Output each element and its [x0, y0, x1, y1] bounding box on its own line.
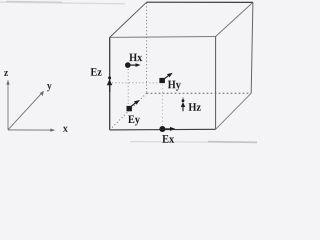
- cube front left edge: [109, 37, 111, 129]
- interior dotted vertical Hx-Ey: [127, 69, 129, 105]
- cube back right edge: [251, 2, 253, 93]
- cube edge bottom-right diagonal: [216, 93, 252, 129]
- field Hz marker: [181, 97, 185, 111]
- field Ez marker: [107, 76, 113, 92]
- axis z label: [4, 71, 8, 76]
- interior dotted horizontal Ez-Hy: [112, 82, 159, 84]
- cube edge top-left diagonal: [110, 2, 147, 37]
- field Hy marker: [159, 73, 172, 83]
- axis y label: [47, 84, 52, 91]
- field Hx label: [129, 54, 137, 62]
- cube front bottom edge: [110, 128, 216, 131]
- scan artifact top streak: [0, 1, 125, 3]
- field Ey label: [128, 115, 134, 123]
- field Ex marker: [159, 126, 175, 132]
- field Ex label: [162, 135, 168, 143]
- field Hz label: [189, 103, 197, 111]
- scan artifact bottom-right streak: [130, 141, 257, 144]
- cube hidden back-bottom edge (dashed): [147, 92, 252, 94]
- interior dotted vertical Hy-Ex: [162, 85, 164, 126]
- axis x: [8, 129, 55, 132]
- axis z: [6, 80, 9, 130]
- cube hidden bottom-left diagonal (dotted): [110, 93, 147, 130]
- cube edge top-right diagonal: [216, 2, 253, 36]
- field Ez label: [91, 68, 97, 76]
- cube front right edge: [215, 37, 217, 130]
- axis x label: [63, 127, 68, 132]
- cube back top edge: [147, 1, 253, 3]
- field Hy label: [168, 81, 176, 89]
- cube front top edge: [110, 36, 216, 39]
- cube hidden back-left edge (dotted): [146, 3, 148, 93]
- axis y: [8, 91, 44, 130]
- field Hx marker: [125, 62, 141, 68]
- field Ey marker: [127, 100, 140, 111]
